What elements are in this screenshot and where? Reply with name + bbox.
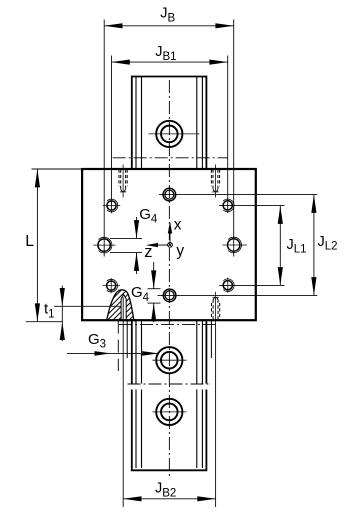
wire: rail hidden-joint centerline above block xyxy=(113,157,228,159)
dimension JL2 xyxy=(158,195,318,296)
svg-text:x: x xyxy=(174,217,182,234)
hidden tapped hole top-right xyxy=(211,170,219,194)
wire: main vertical centerline xyxy=(168,80,170,477)
corner mounting hole top-right xyxy=(223,199,234,212)
corner mounting hole bottom-right xyxy=(223,278,234,293)
leader G3 (side lube port) xyxy=(67,352,158,354)
svg-text:y: y xyxy=(176,242,184,259)
dimension L xyxy=(26,169,82,322)
wire: block bottom edge over slot xyxy=(117,319,136,321)
svg-text:z: z xyxy=(144,243,152,261)
dimension JB1 xyxy=(112,56,228,214)
hidden tapped hole top-left xyxy=(119,170,127,194)
node: top rail hole horizontal centerline xyxy=(149,133,200,135)
center lube hole bottom (G4) xyxy=(163,289,176,302)
rail mounting hole top (rings) xyxy=(156,121,182,147)
dimension JB2 xyxy=(123,297,215,507)
G3 drilled slot in section xyxy=(121,294,126,320)
carriage block outline xyxy=(82,169,256,320)
dimension G4 upper (side hole dia) xyxy=(110,217,142,274)
side lube hole right (G4) xyxy=(223,237,248,253)
wire: rail joint dash-dot below block xyxy=(119,323,216,325)
axis x (up) xyxy=(169,233,171,242)
axis z (left) xyxy=(158,244,168,246)
svg-text:L: L xyxy=(25,233,34,250)
corner mounting hole top-left xyxy=(103,199,120,212)
corner mounting hole bottom-left xyxy=(103,278,120,293)
rail mounting hole bottom 2 xyxy=(156,399,182,425)
dimension G4 lower (center hole dia) xyxy=(148,262,161,322)
dimension t1 xyxy=(54,286,121,342)
sectioned lube port boss (hatched) xyxy=(84,278,187,322)
coordinate system origin xyxy=(168,243,173,248)
rail mounting hole bottom 1 xyxy=(156,347,182,373)
dimension JB xyxy=(104,20,234,257)
side lube hole left (G4) xyxy=(93,237,115,253)
center lube hole top (G4) xyxy=(163,188,176,201)
dimension JL1 xyxy=(219,206,284,286)
hidden tapped hole bottom-right xyxy=(212,296,220,320)
rail top section body xyxy=(132,76,207,169)
wire: hidden hole line left of rail xyxy=(117,321,119,371)
wire: rail butt-joint centerline xyxy=(128,383,212,385)
rail bottom section body xyxy=(127,321,211,471)
